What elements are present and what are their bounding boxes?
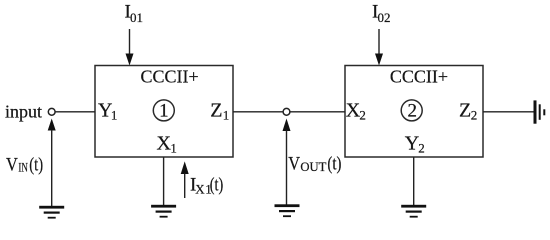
op-amp block U2 CCCII+ [345,66,483,158]
ground G1 (below VIN) [39,206,64,219]
svg-text:CCCII+: CCCII+ [390,66,448,86]
svg-text:V: V [6,155,18,176]
svg-text:X: X [195,181,205,196]
node VOUT (open circle) [283,108,290,115]
svg-text:OUT: OUT [300,159,326,174]
svg-text:(t): (t) [210,175,223,196]
svg-text:(t): (t) [327,154,341,175]
wire Z1 to X2 [233,111,345,113]
node 2 (circled) [401,100,422,122]
wire Z2 to right ground [483,111,534,113]
svg-text:2: 2 [418,140,425,155]
label IX1(t) [190,175,223,197]
svg-text:(t): (t) [29,155,43,176]
svg-text:X: X [157,133,172,155]
pin X2 [346,99,366,122]
svg-text:1: 1 [111,108,118,123]
wire Y2 to ground [413,157,415,206]
arrow VIN (points up to input node) [48,119,56,207]
label I02 [372,2,391,26]
svg-text:V: V [288,154,300,175]
ground G5 (rotated, at right) [534,100,546,123]
op-amp block U1 CCCII+ [95,66,233,158]
pin Z1 [210,99,229,122]
svg-text:Z: Z [459,99,471,121]
node input (open circle) [48,108,55,115]
svg-text:input: input [5,101,42,121]
label VOUT(t) [288,154,341,175]
svg-text:1: 1 [170,141,177,156]
current arrow I01 [126,29,134,66]
label VIN(t) [6,155,43,176]
arrow VOUT (points up to node) [283,119,291,205]
arrow IX1 (points up) [181,161,189,198]
pin Z2 [459,99,477,122]
pin Y1 [98,99,117,122]
pin Y2 [405,133,425,156]
svg-text:2: 2 [471,108,478,123]
current arrow I02 [375,29,383,66]
svg-text:1: 1 [159,100,169,121]
svg-text:Y: Y [405,133,419,155]
ground G3 (below VOUT) [275,204,300,217]
svg-text:2: 2 [407,100,417,121]
ground G4 (below Y2) [401,205,426,218]
svg-text:1: 1 [223,108,230,123]
svg-text:CCCII+: CCCII+ [141,66,199,86]
svg-text:02: 02 [378,10,391,25]
node 1 (circled) [153,100,174,122]
wire X1 to ground [163,157,165,206]
ground G2 (below X1) [151,205,176,218]
svg-text:2: 2 [359,108,366,123]
svg-text:01: 01 [130,10,143,25]
svg-text:Z: Z [210,99,222,121]
pin X1 [157,133,177,156]
svg-text:IN: IN [18,160,28,175]
label I01 [125,2,144,26]
wire input node to Y1 [55,111,95,113]
